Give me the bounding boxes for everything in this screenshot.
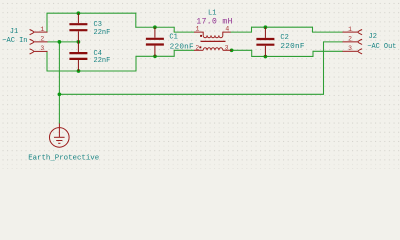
svg-text:2: 2: [40, 36, 44, 43]
L1 bottom winding: [203, 48, 223, 50]
junction C2 top: [264, 25, 268, 29]
capacitor C2: [256, 27, 304, 56]
wire mid rail to C1 top: [136, 26, 174, 28]
junction C4 bottom on bottom rail: [77, 69, 81, 73]
junction C1 bottom: [153, 54, 157, 58]
wire step down to J2 pin1: [312, 27, 314, 32]
svg-text:22nF: 22nF: [94, 29, 111, 37]
earth bar short: [58, 142, 60, 144]
junction C3 top on top rail: [77, 11, 81, 15]
wire C1 bottom rail: [136, 55, 174, 57]
wire step down to C2 bottom rail: [251, 50, 253, 56]
svg-text:J2: J2: [369, 33, 377, 41]
svg-text:3: 3: [40, 45, 44, 52]
C1 bottom lead: [154, 46, 156, 57]
C3 bottom lead: [77, 31, 79, 42]
wires: all green nets: [47, 13, 343, 123]
wire into L1 pin2: [174, 49, 194, 51]
wire C2 bottom rail: [252, 55, 313, 57]
svg-text:220nF: 220nF: [170, 43, 194, 51]
L1 top winding: [203, 35, 223, 37]
svg-text:3: 3: [348, 45, 352, 52]
C3 top plate: [69, 23, 87, 25]
C2 top lead: [264, 27, 266, 38]
wire L1 pin4 out: [231, 31, 252, 33]
earth pin lead: [58, 124, 60, 138]
pin 1 line J1: [34, 31, 48, 33]
earth circle: [50, 128, 70, 148]
earth bar long: [54, 136, 65, 138]
power symbol Earth_Protective: [28, 124, 99, 163]
svg-text:C1: C1: [169, 34, 177, 42]
wire step up to L1 pin2 row: [173, 50, 175, 56]
earth bar middle: [56, 140, 62, 142]
wire J1 pin2 to C3 C4 midpoint: [48, 41, 79, 43]
wire L1 pin3 out: [232, 49, 252, 51]
pin 2 line J2: [343, 41, 358, 43]
capacitor C4: [69, 42, 110, 71]
C2 top plate: [256, 38, 274, 40]
pin 2 chevron J2: [358, 39, 362, 44]
wire into L1 pin1: [174, 31, 194, 33]
pin 3 chevron J2: [358, 49, 362, 54]
svg-text:1: 1: [40, 26, 44, 33]
svg-text:2: 2: [195, 45, 199, 52]
svg-text:Earth_Protective: Earth_Protective: [28, 154, 99, 162]
wire riser to J2 pin2: [323, 42, 325, 94]
svg-text:~AC In: ~AC In: [2, 37, 27, 45]
svg-text:1: 1: [348, 26, 352, 33]
svg-text:J1: J1: [10, 28, 18, 36]
capacitor C3: [69, 13, 110, 42]
C4 top plate: [69, 52, 87, 54]
junction C2 bottom: [264, 55, 268, 59]
wire step up to J2 pin3 row: [312, 51, 314, 56]
wire into J2 pin3: [313, 50, 343, 52]
junction C1 top on mid rail: [153, 25, 157, 29]
wire into J2 pin2: [324, 41, 343, 43]
svg-text:~AC Out: ~AC Out: [367, 43, 396, 51]
wire step down to L1 pin1 row: [173, 27, 175, 32]
L1 polarity dot bottom: [199, 46, 201, 48]
C2 bottom lead: [264, 46, 266, 57]
L1 pin 1 line: [194, 32, 203, 35]
L1 pin 2 line: [194, 49, 203, 51]
wire earth drop: [58, 42, 60, 124]
svg-text:22nF: 22nF: [94, 57, 111, 65]
C1 top plate: [146, 38, 164, 40]
wire J1 pin3 drop: [46, 51, 48, 71]
L1 pin 3 line: [223, 49, 232, 51]
C3 bottom plate: [69, 29, 87, 31]
wire riser to C2 top rail: [251, 27, 253, 32]
pin 3 line J1: [34, 50, 48, 52]
wire J1 pin1 riser: [46, 13, 48, 32]
wire bottom left rail: [47, 70, 136, 72]
connector J2: [343, 26, 397, 54]
svg-text:4: 4: [225, 26, 229, 33]
wire C2 top rail: [252, 26, 313, 28]
C4 top lead: [77, 42, 79, 52]
svg-text:3: 3: [225, 45, 229, 52]
L1 core line: [201, 40, 226, 42]
C4 bottom lead: [77, 60, 79, 71]
L1 pin 4 line: [223, 32, 231, 35]
wire riser to C1 bottom rail: [135, 56, 137, 71]
pin 2 line J1: [34, 41, 48, 43]
C2 bottom plate: [256, 44, 274, 46]
capacitor C1: [146, 27, 194, 56]
L1 polarity dot top: [200, 35, 202, 37]
svg-text:2: 2: [348, 36, 352, 43]
pin 1 chevron J1: [30, 30, 34, 35]
wire step down to mid rail: [135, 13, 137, 27]
svg-text:220nF: 220nF: [280, 43, 304, 51]
pin 1 chevron J2: [358, 30, 362, 35]
C4 bottom plate: [69, 58, 87, 60]
C1 top lead: [154, 27, 156, 37]
connector J1: [2, 26, 47, 54]
C3 top lead: [77, 13, 79, 23]
svg-text:17.0 mH: 17.0 mH: [196, 18, 232, 27]
junction earth tap on pin2 wire: [58, 40, 62, 44]
junction C3 C4 midpoint: [77, 40, 81, 44]
junction earth rail tap: [58, 92, 62, 96]
svg-text:1: 1: [196, 26, 200, 33]
pin 3 line J2: [343, 50, 358, 52]
pin 3 chevron J1: [30, 49, 34, 54]
junction L1 pin3: [230, 48, 234, 52]
wire top rail: [47, 12, 136, 14]
svg-text:C2: C2: [280, 34, 288, 42]
pin 1 line J2: [343, 31, 358, 33]
pin 2 chevron J1: [30, 39, 34, 44]
svg-text:L1: L1: [208, 9, 216, 17]
wire earth bottom rail: [59, 93, 323, 95]
inductor L1 common mode choke: [194, 9, 233, 51]
C1 bottom plate: [146, 43, 164, 45]
wire into J2 pin1: [313, 31, 343, 33]
